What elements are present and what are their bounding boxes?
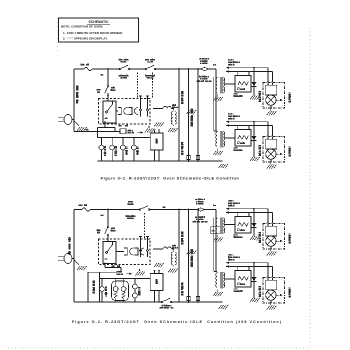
label latch switch bottom xyxy=(126,201,135,219)
relay coil top xyxy=(116,108,138,115)
svg-text:Figure O-2. R-23GV/22GT Oven: Figure O-2. R-23GV/22GT Oven SChematic-I… xyxy=(101,175,240,180)
ground of bus top xyxy=(218,164,228,168)
label magnetron U1 top xyxy=(288,93,291,102)
label power transformer U2 top xyxy=(229,113,240,119)
transformer T U2 bottom xyxy=(216,272,235,289)
oven lamp M1 bottom xyxy=(100,279,105,303)
label 2nd latch switch top xyxy=(145,59,155,79)
fan motor M3 bottom xyxy=(121,279,126,303)
svg-text:NOTE: CONDITION OF OVEN:: NOTE: CONDITION OF OVEN: xyxy=(61,25,103,29)
control transformer box bottom xyxy=(150,270,163,290)
wire vertical WHT top xyxy=(188,69,190,161)
label line filter bottom xyxy=(173,245,178,249)
2nd latch switch top xyxy=(145,65,156,70)
ground of diode U1 top xyxy=(250,93,260,100)
ground of noise filter top xyxy=(145,126,155,133)
wire filament F U1 top xyxy=(226,67,269,82)
1st latch switch top xyxy=(119,65,130,70)
label 1st latch switch top xyxy=(119,59,128,79)
label motor M3 top xyxy=(125,147,128,155)
door linkage dashes top xyxy=(138,73,153,99)
wire hv feed return bottom xyxy=(214,218,217,272)
wire filament F U1 bottom xyxy=(226,208,269,223)
transformer T U1 top xyxy=(216,77,235,94)
terminal block top xyxy=(120,129,126,134)
wire vertical RED top xyxy=(197,69,199,161)
wire filament F U2 bottom xyxy=(226,262,269,277)
wire filament FA U1 top xyxy=(226,67,273,82)
wire hv feed top xyxy=(215,69,217,131)
ground of diode U1 bottom xyxy=(250,234,260,241)
ground of diode U2 top xyxy=(250,155,260,162)
scan artifact dotted line right xyxy=(309,28,311,348)
wires control transformer to bus bottom xyxy=(155,291,160,302)
wire main rail L1 bottom xyxy=(74,209,216,211)
label power transformer U1 top xyxy=(228,59,239,65)
wire W neutral top xyxy=(74,129,120,133)
lamp/motor M4 top xyxy=(132,138,137,162)
wire code F top xyxy=(214,64,216,66)
label stop switch bottom xyxy=(97,228,116,234)
svg-text:SCHEMATIC: SCHEMATIC xyxy=(89,20,109,24)
relay contacts bottom xyxy=(139,237,149,258)
wire filament FA U2 bottom xyxy=(226,262,273,277)
wire motor bus top bottom xyxy=(100,278,151,280)
wire C-6 A-5 bottom xyxy=(100,265,122,272)
door linkage dashes bottom xyxy=(144,213,146,239)
label hv rectifier U1 bottom xyxy=(258,233,261,243)
power relay RY1 bottom xyxy=(103,242,116,264)
wire supply left bottom xyxy=(73,210,75,303)
wire neutral box bottom xyxy=(88,272,100,302)
ground of line filter bottom xyxy=(154,263,164,267)
wire code F bottom xyxy=(213,205,216,207)
svg-text:Figure O-2. R-23GT/24GT Oven: Figure O-2. R-23GT/24GT Oven SChematic-I… xyxy=(72,320,282,324)
node N top xyxy=(101,74,103,76)
hv rectifier diode D U2 bottom xyxy=(252,263,257,296)
relay coil bottom xyxy=(116,248,144,255)
ground of magnetron U1 bottom xyxy=(267,249,277,256)
label fuse top xyxy=(81,64,89,66)
ground of magnetron U1 top xyxy=(267,109,277,116)
label magnetron U1 bottom xyxy=(288,234,291,243)
label oven lamp bottom xyxy=(105,287,108,296)
label thermal cutout bottom xyxy=(193,199,207,223)
lamp/motor M3 top xyxy=(121,138,126,162)
caption bottom schematic xyxy=(72,320,282,324)
wire hv feed bottom xyxy=(215,210,217,272)
control unit dashed box bottom xyxy=(99,239,151,265)
label hv rectifier U2 top xyxy=(258,146,261,156)
label secondary interlock switch bottom xyxy=(160,305,173,309)
hv capacitor C U1 bottom xyxy=(234,212,251,237)
control unit dashed box top xyxy=(99,99,151,125)
label C-6 A-5 top xyxy=(119,125,128,127)
wire vertical BLK top xyxy=(178,69,180,161)
ground of transformer U1 bottom xyxy=(213,235,223,242)
wire filament FA U2 top xyxy=(226,121,273,136)
ground of transformer U1 top xyxy=(213,95,223,102)
ground of bus bottom xyxy=(218,305,228,309)
wire vertical WHT bottom xyxy=(188,210,190,303)
hv capacitor C U2 top xyxy=(234,125,251,150)
varistor box U1 bottom xyxy=(211,227,221,234)
note box frame xyxy=(59,18,139,42)
connector on bus 2 bottom xyxy=(196,297,199,301)
wire main bus bottom bottom xyxy=(74,301,223,303)
label wire RED top xyxy=(181,143,184,155)
wire supply left top xyxy=(73,69,75,132)
label thermal cutout top xyxy=(197,58,212,82)
wire motor bus top top xyxy=(98,137,151,139)
fan motor M2 bottom xyxy=(113,279,118,303)
wire main bus bottom top xyxy=(98,160,223,162)
power plug top xyxy=(58,115,74,125)
ground of lv transformer top xyxy=(168,128,178,132)
label magnetron U2 top xyxy=(288,147,291,156)
wire code R bottom xyxy=(163,207,165,209)
svg-text:2. “ * ” APPEARS ON DISPLAY.: 2. “ * ” APPEARS ON DISPLAY. xyxy=(63,37,108,41)
wire main rail L1 top xyxy=(74,68,216,70)
ground of magnetron U2 bottom xyxy=(267,303,277,310)
connector on bus 2 top xyxy=(196,156,199,160)
label power supply cord bottom xyxy=(68,238,71,255)
lv transformer coil top xyxy=(171,109,176,127)
ground of neutral bottom xyxy=(186,251,196,255)
magnetron thermal cutout bottom xyxy=(197,208,204,211)
magnetron U1 bottom xyxy=(263,224,285,250)
lamp/motor M1 top xyxy=(99,138,104,162)
ground of transformer U2 bottom xyxy=(213,290,223,297)
turntable motor M4 bottom xyxy=(133,279,138,303)
note box title SCHEMATIC xyxy=(87,20,110,24)
label fuse bottom xyxy=(79,204,87,206)
wire control to bus top xyxy=(98,121,116,138)
fuse F1 bottom xyxy=(82,208,90,211)
latch switch bottom xyxy=(139,206,150,211)
label wire WHT top xyxy=(190,109,193,126)
hv rectifier diode D U1 bottom xyxy=(252,209,257,234)
scan artifact dots top left xyxy=(57,18,59,52)
ground of magnetron U2 top xyxy=(267,162,277,169)
line filter coil bottom xyxy=(153,247,174,249)
ground of lv transformer bottom xyxy=(168,269,178,273)
stop switch bottom xyxy=(105,210,109,242)
magnetron thermal cutout top xyxy=(201,68,208,71)
transformer T U1 bottom xyxy=(216,218,235,235)
label magnetron U2 bottom xyxy=(288,288,291,297)
hv capacitor C U1 top xyxy=(234,71,251,96)
wire control to bus bottom xyxy=(105,263,121,273)
label hv rectifier U1 top xyxy=(258,92,261,102)
caption top schematic xyxy=(101,175,240,180)
wire hv feed return top xyxy=(214,77,217,131)
transformer T U2 top xyxy=(216,131,235,148)
note box line 2 xyxy=(63,37,108,41)
label motor M1 top xyxy=(104,147,107,156)
magnetron U1 top xyxy=(263,83,285,109)
label line filter top xyxy=(172,104,177,108)
label power transformer U2 bottom xyxy=(229,254,240,260)
label noise filter bottom xyxy=(117,271,133,275)
hv rectifier diode D U1 top xyxy=(252,68,257,93)
stop switch top xyxy=(105,69,109,101)
note box line 1 xyxy=(63,31,123,35)
label wire WHT bottom xyxy=(190,250,193,267)
line filter coil top xyxy=(153,106,174,108)
connector on bus 1 top xyxy=(187,156,190,160)
ground of plug bottom xyxy=(75,261,87,271)
label motor M4 top xyxy=(136,147,139,155)
ground of diode U2 bottom xyxy=(250,296,260,303)
lamp/motor M2 top xyxy=(110,138,115,162)
lv transformer coil bottom xyxy=(171,249,176,267)
connector on bus 1 bottom xyxy=(187,297,190,301)
label wire RED bottom xyxy=(181,283,184,295)
magnetron U2 bottom xyxy=(263,278,285,304)
relay contacts top xyxy=(139,96,149,117)
label wire BLK top xyxy=(181,92,184,104)
fuse F1 top xyxy=(84,67,92,70)
ground of plug top xyxy=(75,122,87,132)
node N bottom xyxy=(101,215,103,217)
wires control transformer to bus top xyxy=(155,150,160,161)
label turntable motor bottom xyxy=(138,288,141,296)
note box line: NOTE CONDITION OF OVEN xyxy=(61,25,103,29)
hv rectifier diode D U2 top xyxy=(252,122,257,155)
wire vertical BLK bottom xyxy=(178,210,180,303)
scan artifact dotted line bottom xyxy=(8,347,311,349)
label power transformer U1 bottom xyxy=(228,200,239,206)
ground of neutral top xyxy=(186,110,196,114)
ground of noise filter bottom xyxy=(135,269,145,276)
magnetron U2 top xyxy=(263,137,285,163)
svg-text:1. FOR 1 MINUTE AFTER DOOR OP: 1. FOR 1 MINUTE AFTER DOOR OPENED xyxy=(63,31,123,35)
wire filament FA U1 bottom xyxy=(226,208,273,223)
control transformer box top xyxy=(150,130,163,150)
ground of line filter top xyxy=(154,123,164,127)
label stop switch top xyxy=(97,87,116,93)
label noise filter top xyxy=(128,130,144,134)
wire filament F U2 top xyxy=(226,121,269,136)
secondary interlock switch bottom xyxy=(161,298,172,303)
hv capacitor C U2 bottom xyxy=(234,266,251,291)
power plug bottom xyxy=(58,254,74,264)
ground of transformer U2 top xyxy=(213,149,223,156)
label wire BLK bottom xyxy=(181,232,184,244)
label power supply cord top xyxy=(76,86,79,103)
label motor M2 top xyxy=(114,147,117,156)
fan motor housing bottom xyxy=(112,281,129,301)
label hv rectifier U2 bottom xyxy=(258,287,261,297)
wire vertical RED bottom xyxy=(197,210,199,303)
power relay RY1 top xyxy=(103,101,116,123)
